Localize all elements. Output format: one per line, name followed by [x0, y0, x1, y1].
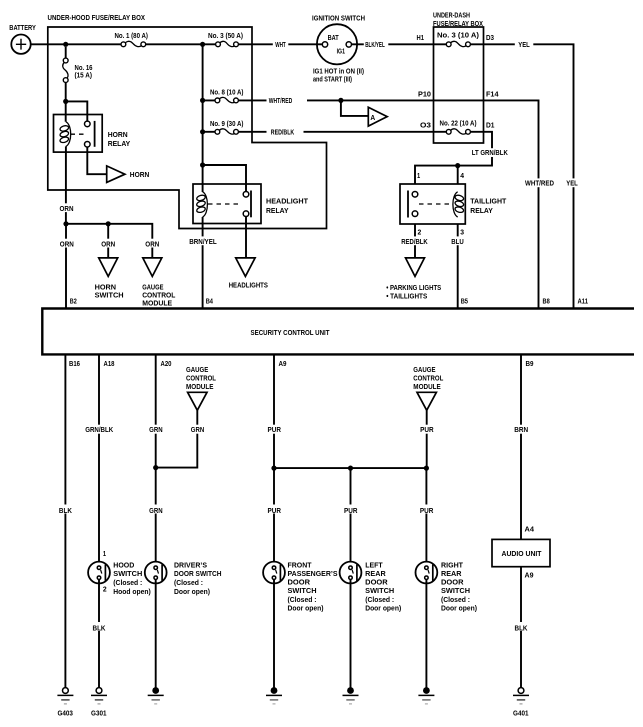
svg-text:A11: A11 [578, 299, 589, 306]
svg-text:No. 9 (30 A): No. 9 (30 A) [210, 121, 244, 128]
svg-text:No. 3 (10 A): No. 3 (10 A) [437, 33, 479, 40]
svg-text:(Closed :: (Closed : [113, 580, 142, 587]
wire gauge module to A20 junction [156, 410, 198, 467]
svg-text:BRN/YEL: BRN/YEL [189, 239, 217, 246]
front passenger's door switch S3 [263, 562, 285, 584]
wire gauge module right down [426, 410, 428, 468]
svg-text:B8: B8 [543, 299, 550, 306]
svg-text:B2: B2 [70, 299, 77, 306]
svg-text:• PARKING LIGHTS: • PARKING LIGHTS [386, 285, 441, 292]
svg-text:2: 2 [103, 587, 107, 594]
wire horn relay coil bottom to ORN junction [65, 146, 67, 223]
headlight relay coil [203, 192, 208, 217]
fuse No.3 (50 A) F3 [220, 41, 235, 46]
svg-text:PUR: PUR [267, 508, 281, 515]
wire label BRN/YEL [188, 236, 219, 245]
svg-text:BLK/YEL: BLK/YEL [365, 42, 385, 49]
svg-text:A9: A9 [525, 572, 534, 579]
wire No.8 row to F14 corner down to B8 [203, 100, 539, 308]
wire label BLK B9 [513, 622, 529, 631]
wire hood switch to ground G301 [98, 580, 100, 688]
wire ORN distribution row [66, 224, 152, 309]
svg-text:GRN/BLK: GRN/BLK [85, 427, 113, 434]
taillight relay contact bar [407, 191, 409, 218]
wire label RED/BLK taillight [400, 236, 430, 245]
wire B9 column to audio unit [520, 354, 522, 539]
wire label GRN/BLK [84, 425, 115, 434]
wire label PUR gauge right [419, 425, 435, 434]
svg-text:LEFT: LEFT [365, 562, 383, 569]
wire A18 column to hood switch [98, 354, 100, 566]
wire D1 out corner down and left to taillight pins [415, 132, 492, 184]
battery B1 [11, 35, 30, 54]
svg-text:DOOR: DOOR [365, 580, 388, 587]
svg-text:YEL: YEL [566, 180, 578, 187]
wire A9 column to front passenger's door switch [273, 354, 275, 566]
svg-text:D3: D3 [486, 35, 494, 42]
wire label YEL right column [565, 178, 583, 187]
svg-text:D1: D1 [486, 123, 495, 130]
wire label PUR A9 upper [267, 425, 283, 434]
taillight relay dashed link [419, 203, 452, 205]
connector A triangle [368, 107, 387, 126]
wire label ORN upper [58, 203, 73, 212]
wire label WHT/RED [267, 96, 308, 105]
arrow from gauge control module left [188, 392, 207, 410]
wire label RED/BLK [267, 128, 304, 137]
wire headlight coil bottom to B4 [202, 217, 204, 309]
svg-text:FUSE/RELAY BOX: FUSE/RELAY BOX [433, 21, 483, 28]
ground G301 [96, 688, 102, 694]
arrow to headlights [236, 258, 255, 277]
node junction PUR row middle [348, 466, 353, 471]
svg-text:B5: B5 [461, 299, 468, 306]
svg-text:(Closed :: (Closed : [174, 580, 203, 587]
wire label GRN A20 [148, 425, 164, 434]
svg-text:and START (III): and START (III) [313, 76, 352, 83]
svg-text:ORN: ORN [60, 241, 74, 248]
svg-text:HORN: HORN [95, 285, 117, 292]
ground right rear switch [423, 687, 430, 694]
wire headlight contact bottom to arrow [245, 217, 247, 258]
svg-text:ORN: ORN [145, 241, 159, 248]
svg-text:(Closed :: (Closed : [288, 597, 317, 604]
svg-text:H1: H1 [417, 35, 425, 42]
svg-text:RELAY: RELAY [470, 208, 493, 215]
svg-text:RELAY: RELAY [108, 141, 131, 148]
right rear door switch S5 [416, 562, 438, 584]
wire label GRN lower [148, 505, 164, 514]
wire taillight pin 4 [457, 166, 459, 184]
wire driver's door switch to ground [155, 580, 157, 691]
svg-text:LT GRN/BLK: LT GRN/BLK [472, 150, 508, 157]
node junction PUR row right [424, 466, 429, 471]
svg-text:A9: A9 [279, 361, 287, 368]
svg-text:4: 4 [460, 173, 464, 180]
svg-text:G401: G401 [513, 711, 529, 718]
wire right rear switch to ground [425, 580, 427, 691]
svg-text:PUR: PUR [420, 427, 434, 434]
audio unit U2 box [492, 539, 550, 566]
wire taillight pin2 to arrow [414, 224, 416, 258]
wire right rear column [425, 468, 427, 566]
svg-text:RED/BLK: RED/BLK [271, 129, 295, 136]
wire label WHT [273, 40, 289, 49]
svg-text:G403: G403 [57, 711, 73, 718]
svg-text:UNDER-DASH: UNDER-DASH [433, 13, 470, 20]
wire label PUR A9 lower [267, 505, 283, 514]
svg-text:MODULE: MODULE [142, 301, 172, 308]
headlight relay K2 box [193, 184, 261, 224]
arrow to parking lights [406, 258, 425, 277]
svg-text:DOOR SWITCH: DOOR SWITCH [174, 571, 222, 578]
svg-text:GAUGE: GAUGE [186, 367, 209, 374]
svg-text:A20: A20 [161, 361, 172, 368]
svg-text:CONTROL: CONTROL [142, 293, 176, 300]
svg-text:FRONT: FRONT [288, 562, 313, 569]
svg-text:IG1: IG1 [337, 49, 345, 56]
fuse No.22 (10 A) F22 [450, 129, 466, 134]
svg-text:No. 22 (10 A): No. 22 (10 A) [440, 121, 477, 128]
node junction A9 row left [271, 466, 276, 471]
svg-text:REAR: REAR [441, 571, 462, 578]
svg-text:IG1 HOT in ON (II): IG1 HOT in ON (II) [313, 69, 364, 76]
fuse No.16 (15 A) F16 [65, 47, 67, 122]
wire label LT GRN/BLK [470, 148, 510, 157]
wire label GRN gauge left [190, 425, 206, 434]
horn relay K1 box [54, 115, 103, 153]
svg-text:SWITCH: SWITCH [365, 588, 394, 595]
svg-text:Door open): Door open) [174, 589, 210, 596]
svg-text:WHT: WHT [275, 42, 286, 49]
wire label BLK B16 [58, 505, 73, 514]
svg-text:ORN: ORN [101, 241, 115, 248]
svg-text:No. 1 (80 A): No. 1 (80 A) [114, 33, 148, 40]
svg-text:MODULE: MODULE [413, 384, 441, 391]
hood switch S1 [88, 562, 110, 584]
svg-text:GRN: GRN [149, 427, 163, 434]
svg-text:A18: A18 [104, 361, 115, 368]
wire audio unit to ground G401 [520, 567, 522, 688]
wire label PUR left rear [343, 505, 359, 514]
svg-text:RIGHT: RIGHT [441, 562, 464, 569]
svg-text:GAUGE: GAUGE [413, 367, 436, 374]
wire label YEL top [515, 40, 534, 49]
node ORN junction middle [106, 221, 111, 226]
ignition pin IG1 [346, 42, 351, 47]
fuse No.9 (30 A) F9 [219, 129, 236, 134]
svg-text:HOOD: HOOD [113, 562, 134, 569]
svg-text:DRIVER’S: DRIVER’S [174, 562, 207, 569]
svg-text:A: A [370, 115, 375, 122]
node P10 wire / A connector branch [338, 98, 343, 103]
wire ignition IG1 pin to YEL corner down to A11 [352, 44, 574, 308]
svg-text:HORN: HORN [130, 172, 150, 179]
svg-text:Hood open): Hood open) [113, 589, 151, 596]
svg-text:GRN: GRN [191, 427, 205, 434]
svg-text:(15 A): (15 A) [75, 73, 93, 80]
wire No.9 row to O3 [203, 131, 447, 133]
svg-text:SWITCH: SWITCH [288, 588, 317, 595]
under-hood fuse/relay box outline [48, 27, 327, 229]
taillight relay contact pins [412, 192, 418, 198]
svg-text:PUR: PUR [267, 427, 281, 434]
arrow to gauge control module top [143, 258, 162, 277]
svg-text:WHT/RED: WHT/RED [269, 98, 293, 105]
vertical bus from main wire [202, 44, 204, 192]
horn relay coil [66, 122, 71, 147]
headlight relay dashed link [208, 203, 242, 205]
taillight relay K3 box [400, 184, 465, 224]
fuse No.8 (10 A) F8 [219, 97, 236, 102]
svg-text:No. 16: No. 16 [75, 65, 93, 72]
svg-text:(Closed :: (Closed : [441, 597, 470, 604]
svg-text:TAILLIGHT: TAILLIGHT [470, 198, 507, 205]
svg-text:REAR: REAR [365, 571, 386, 578]
under-dash fuse/relay box outline [434, 27, 484, 143]
svg-text:UNDER-HOOD FUSE/RELAY BOX: UNDER-HOOD FUSE/RELAY BOX [48, 15, 146, 22]
svg-text:BRN: BRN [514, 427, 528, 434]
svg-text:A4: A4 [525, 526, 535, 533]
svg-text:SWITCH: SWITCH [113, 571, 142, 578]
arrow to horn switch [99, 258, 118, 277]
svg-text:BLK: BLK [93, 625, 106, 632]
svg-text:RED/BLK: RED/BLK [401, 239, 428, 246]
wire jog to horn relay contact [66, 101, 88, 121]
svg-text:MODULE: MODULE [186, 384, 214, 391]
svg-text:1: 1 [103, 551, 106, 558]
svg-text:BLK: BLK [59, 508, 72, 515]
wire taillight pin3 to B5 [457, 224, 459, 309]
svg-text:AUDIO UNIT: AUDIO UNIT [502, 551, 543, 558]
node junction A20 / gauge module [153, 465, 158, 470]
wire label BLK A18 [91, 622, 107, 631]
wire label WHT/RED right column [522, 178, 557, 187]
svg-text:O3: O3 [420, 123, 431, 130]
ground G403 [63, 688, 69, 694]
wire left rear switch to ground [350, 580, 352, 691]
wire label ORN left [59, 239, 75, 248]
svg-text:CONTROL: CONTROL [186, 375, 217, 382]
svg-text:HEADLIGHT: HEADLIGHT [266, 198, 309, 205]
svg-text:Door open): Door open) [365, 605, 401, 612]
svg-text:WHT/RED: WHT/RED [525, 180, 554, 187]
headlight relay contact pins [243, 192, 249, 198]
svg-text:B9: B9 [526, 361, 534, 368]
svg-text:CONTROL: CONTROL [413, 375, 444, 382]
svg-text:No. 3 (50 A): No. 3 (50 A) [208, 33, 243, 40]
svg-text:BLU: BLU [451, 239, 464, 246]
ignition pin BAT [322, 42, 327, 47]
wire jog to headlight relay contact [203, 165, 246, 192]
wire label BLU [450, 236, 466, 245]
svg-text:RELAY: RELAY [266, 208, 289, 215]
svg-text:P10: P10 [418, 92, 431, 99]
svg-text:• TAILLIGHTS: • TAILLIGHTS [386, 294, 427, 301]
wire left rear column [350, 468, 352, 566]
svg-text:BAT: BAT [328, 35, 340, 42]
node bus/No.9 [200, 129, 205, 134]
svg-text:BLK: BLK [515, 625, 528, 632]
svg-text:ORN: ORN [60, 206, 74, 213]
ground G401 [518, 688, 524, 694]
ignition switch circle U-IGN [317, 24, 357, 64]
svg-text:YEL: YEL [518, 42, 530, 49]
node junction main wire / fuse 16 [63, 42, 68, 47]
wire front passenger's switch to ground [273, 580, 275, 691]
svg-text:2: 2 [418, 229, 422, 236]
svg-text:PUR: PUR [344, 508, 358, 515]
svg-text:SWITCH: SWITCH [95, 293, 124, 300]
svg-text:BATTERY: BATTERY [9, 25, 36, 32]
horn relay dashed link [71, 133, 85, 135]
wire PUR distribution row [274, 467, 426, 469]
taillight relay coil [453, 192, 458, 217]
svg-text:1: 1 [417, 173, 420, 180]
wire main feed y=44.3 battery to ignition BAT pin [31, 43, 323, 45]
wire label ORN middle [100, 239, 116, 248]
svg-text:3: 3 [460, 229, 464, 236]
svg-text:HEADLIGHTS: HEADLIGHTS [229, 283, 268, 290]
svg-text:B4: B4 [206, 299, 213, 306]
node junction fuse16 / horn relay [63, 99, 68, 104]
svg-text:G301: G301 [91, 711, 107, 718]
svg-text:DOOR: DOOR [288, 580, 311, 587]
svg-text:F14: F14 [486, 92, 499, 99]
arrow from gauge control module right [417, 392, 436, 410]
svg-text:DOOR: DOOR [441, 580, 464, 587]
ground driver's door switch [152, 687, 159, 694]
svg-text:PASSENGER’S: PASSENGER’S [288, 571, 338, 578]
wire label ORN right [145, 239, 161, 248]
svg-text:GAUGE: GAUGE [142, 285, 164, 292]
svg-text:IGNITION SWITCH: IGNITION SWITCH [312, 16, 365, 23]
fuse No.1 (80 A) F1 [125, 41, 142, 46]
node junction main wire / bus [200, 42, 205, 47]
node bus/No.8 [200, 98, 205, 103]
fuse No.3 (10 A) under-dash F3D [450, 41, 466, 46]
driver's door switch S2 [145, 562, 167, 584]
node taillight pin4 branch [455, 163, 460, 168]
security control unit U1 box [42, 309, 634, 355]
svg-text:GRN: GRN [149, 508, 163, 515]
wire label PUR right rear [419, 505, 435, 514]
svg-text:PUR: PUR [420, 508, 434, 515]
wire horn relay contact bottom to horn [87, 147, 106, 174]
horn symbol triangle [107, 166, 125, 183]
headlight relay contact bar [250, 191, 252, 218]
wire branch to A connector [341, 100, 368, 116]
svg-text:No. 8 (10 A): No. 8 (10 A) [210, 90, 244, 97]
ground left rear switch [347, 687, 354, 694]
node bus/headlight contact jog [200, 162, 205, 167]
left rear door switch S4 [340, 562, 362, 584]
wire B16 column to ground [64, 354, 66, 687]
svg-text:Door open): Door open) [441, 605, 477, 612]
horn relay contact bar [94, 121, 96, 147]
ground front passenger's switch [271, 687, 278, 694]
svg-text:HORN: HORN [108, 132, 128, 139]
svg-text:Door open): Door open) [288, 605, 324, 612]
wire label BRN [513, 425, 529, 434]
wire label BLK/YEL [364, 40, 389, 49]
svg-text:SWITCH: SWITCH [441, 588, 470, 595]
svg-text:B16: B16 [69, 361, 80, 368]
svg-text:(Closed :: (Closed : [365, 597, 394, 604]
wire A20 column to driver's door switch [155, 354, 157, 566]
svg-text:SECURITY CONTROL UNIT: SECURITY CONTROL UNIT [251, 330, 331, 337]
node ORN junction left [63, 221, 68, 226]
horn relay contact pins [85, 121, 91, 127]
